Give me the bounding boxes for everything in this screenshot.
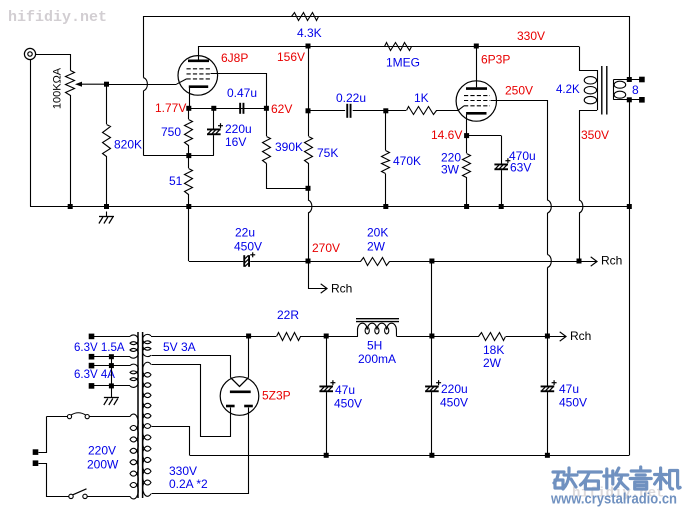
wire 220 bottom xyxy=(466,177,468,207)
svg-text:63V: 63V xyxy=(510,161,531,175)
junction heater gnd b xyxy=(109,363,114,368)
svg-text:5H: 5H xyxy=(367,339,382,353)
transformer PT 6.3V4A winding xyxy=(130,364,138,387)
svg-text:270V: 270V xyxy=(312,241,340,255)
svg-text:0.47u: 0.47u xyxy=(227,86,257,100)
tube 5Z3P plate left xyxy=(226,405,235,408)
tube 6J8P cathode xyxy=(189,85,208,88)
wire grid bend 6J8P xyxy=(177,79,187,84)
arrow Rch coupling xyxy=(308,288,327,290)
wire coupling row left xyxy=(308,110,345,112)
svg-text:www.crystalradio.cn: www.crystalradio.cn xyxy=(550,492,677,508)
arrow Rch screen xyxy=(547,336,566,338)
wire 75K line to 270V node xyxy=(308,213,310,261)
junction plate row / 6P3P plate xyxy=(474,44,479,49)
wire 470u top xyxy=(501,136,503,164)
capacitor 220u 16V electrolytic xyxy=(207,129,221,131)
wire 6P3P screen out xyxy=(491,101,548,201)
wire 22u left drop xyxy=(188,207,190,262)
wire hop over volume wiper xyxy=(144,78,148,91)
wire mains top xyxy=(47,416,68,418)
wire 220u-b bottom lead xyxy=(431,392,433,455)
wire plate-left lead xyxy=(152,365,231,437)
wire OT primary drop 350V upper xyxy=(579,110,581,200)
junction heater gnd a xyxy=(109,354,114,359)
tube 6P3P cathode lead xyxy=(466,115,468,136)
svg-text:Rch: Rch xyxy=(570,329,591,343)
wire 47u-a top lead xyxy=(326,336,328,386)
svg-text:6.3V 4A: 6.3V 4A xyxy=(74,369,115,381)
svg-text:2W: 2W xyxy=(483,356,502,370)
wire plate row xyxy=(198,46,579,48)
transformer PT HV winding upper xyxy=(143,362,151,428)
junction 470u at bus xyxy=(499,204,504,209)
wire 6.3V1.5A top row xyxy=(92,336,131,338)
wire 22u to 270V node xyxy=(250,261,308,263)
junction 350V at 270V row xyxy=(577,259,582,264)
transformer PT 220V winding xyxy=(130,414,138,499)
wire OT secondary top stub xyxy=(614,79,642,81)
terminal heater d xyxy=(89,383,95,389)
tube 6P3P plate lead xyxy=(476,46,478,87)
wire mains left top xyxy=(39,417,47,453)
svg-text:350V: 350V xyxy=(581,128,609,142)
watermark kuangshi shouyinji xyxy=(553,467,680,489)
wire secondary bottom drop xyxy=(629,100,631,456)
inductor 5H 200mA choke xyxy=(358,323,397,336)
wire grid bend 6P3P xyxy=(458,106,465,111)
svg-text:5V 3A: 5V 3A xyxy=(163,340,196,354)
wire hop 75K line over ground bus xyxy=(308,200,312,213)
wire jack ground drop xyxy=(30,60,32,207)
watermark hifidiy.net bottom xyxy=(572,486,664,502)
wire 1K right xyxy=(436,110,458,112)
svg-text:820K: 820K xyxy=(114,138,142,152)
transformer PT core xyxy=(137,332,139,498)
fuse F1 xyxy=(67,415,71,419)
wire bottom return bus xyxy=(190,455,630,457)
svg-text:3W: 3W xyxy=(441,163,460,177)
resistor 750 cathode xyxy=(185,120,193,146)
label 100KOhmA xyxy=(52,67,64,109)
svg-text:4.3K: 4.3K xyxy=(297,26,322,40)
junction secondary bottom xyxy=(627,97,632,102)
svg-text:450V: 450V xyxy=(234,240,262,254)
wire mains left bottom xyxy=(39,464,69,497)
wire 820K bottom xyxy=(106,156,108,207)
svg-text:220V: 220V xyxy=(88,444,116,458)
terminal heater c xyxy=(89,363,95,369)
junction 250V screen node xyxy=(545,334,550,339)
wire pot bottom xyxy=(70,95,72,207)
wire jack to pot top xyxy=(36,55,71,71)
wire 220 top xyxy=(466,136,468,153)
wire heater ground drop xyxy=(111,357,113,393)
junction 470K at bus xyxy=(383,204,388,209)
tube 6P3P cathode xyxy=(466,112,486,115)
svg-text:450V: 450V xyxy=(334,397,362,411)
junction 470K top xyxy=(383,108,388,113)
tube 5Z3P filament lead left xyxy=(230,355,232,377)
wire OT primary bottom stub xyxy=(579,110,597,112)
svg-text:100KΩA: 100KΩA xyxy=(52,67,64,109)
svg-text:200W: 200W xyxy=(87,458,119,472)
wire feedback right drop to secondary xyxy=(629,16,631,80)
svg-text:62V: 62V xyxy=(271,102,292,116)
svg-text:75K: 75K xyxy=(317,146,338,160)
junction 47u-b at bus2 xyxy=(545,453,550,458)
wire 18K right xyxy=(506,336,548,338)
resistor 22R surge xyxy=(277,333,301,341)
wire choke right xyxy=(397,336,432,338)
svg-text:18K: 18K xyxy=(483,343,504,357)
wire feedback left drop upper xyxy=(143,16,145,78)
wire cathode node row xyxy=(189,108,267,110)
terminal mains L xyxy=(33,449,39,455)
wire screen line lower xyxy=(547,268,549,337)
resistor 4.3K feedback xyxy=(292,13,319,21)
svg-text:0.22u: 0.22u xyxy=(336,91,366,105)
capacitor 470u 63V electrolytic xyxy=(494,164,508,166)
potentiometer 100K-A volume xyxy=(66,71,75,96)
junction secondary drop at bus xyxy=(627,204,632,209)
wire 750 bottom xyxy=(188,145,190,156)
svg-text:16V: 16V xyxy=(225,135,246,149)
junction 51 at bus xyxy=(186,204,191,209)
junction cathode 6P3P xyxy=(464,133,469,138)
wire HV center tap xyxy=(152,427,190,456)
wire 1K left xyxy=(386,110,406,112)
tube 6P3P grid dashes xyxy=(464,96,490,106)
junction plate row / 75K drop xyxy=(306,44,311,49)
tube 5Z3P anode bar xyxy=(230,390,251,393)
wire wiper to grid xyxy=(107,84,177,86)
tube 6J8P grid dashes xyxy=(187,69,211,79)
capacitor 47u 450V b electrolytic xyxy=(541,386,555,388)
wire 750 top xyxy=(188,108,190,119)
wire 220u-b top lead xyxy=(431,336,433,386)
wire 470K top xyxy=(385,111,387,151)
junction 270V node xyxy=(306,259,311,264)
resistor 20K 2W decoupling xyxy=(361,258,390,266)
wire mains top b xyxy=(89,416,130,418)
svg-text:220u: 220u xyxy=(225,122,252,136)
wire 18K left xyxy=(432,336,479,338)
svg-text:156V: 156V xyxy=(277,50,305,64)
tube 6J8P plate lead xyxy=(198,46,200,60)
wire hop OT drop over ground bus xyxy=(579,200,583,213)
choke core lines xyxy=(356,318,399,320)
tube 5Z3P filament xyxy=(231,378,249,387)
wire 6.3V4A bottom row xyxy=(92,385,131,387)
wire plate-right lead xyxy=(152,408,249,494)
tube 5Z3P filament lead right xyxy=(248,336,250,378)
junction rectifier filament B+ xyxy=(246,334,251,339)
wire OT drop to 270V row xyxy=(579,213,581,261)
ground symbol main bus xyxy=(106,212,108,217)
svg-text:1MEG: 1MEG xyxy=(386,56,420,70)
wire 470K bottom xyxy=(385,174,387,207)
svg-text:250V: 250V xyxy=(505,84,533,98)
resistor 18K 2W screen feed xyxy=(479,333,506,341)
svg-text:470K: 470K xyxy=(393,154,421,168)
terminal speaker - xyxy=(639,97,645,103)
tube 5Z3P envelope xyxy=(220,377,259,416)
junction 220 at bus xyxy=(464,204,469,209)
wire coupling row mid xyxy=(353,110,386,112)
svg-text:Rch: Rch xyxy=(601,254,622,268)
wire mains bottom xyxy=(87,496,130,498)
wire cathode row 6P3P xyxy=(467,135,502,137)
wire hop screen line over 270V row xyxy=(547,255,551,268)
resistor 51 feedback leg xyxy=(185,169,193,195)
junction 20K right node xyxy=(429,259,434,264)
wire feedback top rail xyxy=(144,16,630,18)
junction 220u-b top xyxy=(429,334,434,339)
terminal speaker + xyxy=(639,77,645,83)
wire OT primary top stub xyxy=(579,70,597,72)
wire OT secondary bottom stub xyxy=(614,99,642,101)
wire 47u-b top lead xyxy=(547,336,549,386)
tube 6P3P envelope xyxy=(456,81,496,121)
wire 75K top xyxy=(308,111,310,136)
node input jack J1 xyxy=(24,48,35,59)
svg-text:1K: 1K xyxy=(414,91,429,105)
svg-text:hifidiy.net: hifidiy.net xyxy=(8,9,107,26)
junction 390K/75K node xyxy=(306,186,311,191)
capacitor 0.22u plates xyxy=(346,104,348,118)
capacitor 47u 450V a electrolytic xyxy=(319,386,333,388)
wire plate row corner to OT primary xyxy=(579,47,581,71)
wire hop screen line over ground bus xyxy=(547,200,551,213)
wire 22R right xyxy=(300,336,326,338)
svg-text:8: 8 xyxy=(632,83,639,97)
tube 6J8P plate xyxy=(188,59,209,62)
transformer PT 6.3V1.5A winding xyxy=(130,335,138,358)
junction heater gnd c xyxy=(109,383,114,388)
resistor 820K grid leak xyxy=(103,125,111,157)
junction 47u-a top xyxy=(324,334,329,339)
wire 6J8P screen to 62V node xyxy=(211,74,267,109)
junction cathode feedback node xyxy=(186,153,191,158)
svg-text:22u: 22u xyxy=(235,226,255,240)
terminal mains N xyxy=(33,460,39,466)
resistor 1MEG grid leak 6P3P xyxy=(385,43,412,51)
pot wiper arrow xyxy=(81,83,107,85)
svg-text:750: 750 xyxy=(161,125,181,139)
transformer PT 5V winding xyxy=(143,334,151,356)
junction 62V node xyxy=(264,106,269,111)
wire Rch stub down xyxy=(309,262,311,289)
svg-text:6.3V 1.5A: 6.3V 1.5A xyxy=(74,342,125,354)
wire choke left xyxy=(326,336,358,338)
ground symbol heater xyxy=(111,393,113,398)
wire feedback left drop lower xyxy=(143,91,145,156)
tube 6J8P cathode lead xyxy=(189,88,191,108)
wire 22R left xyxy=(249,336,276,338)
resistor 75K plate load xyxy=(305,137,313,164)
wire 20K right xyxy=(389,261,432,263)
svg-text:1.77V: 1.77V xyxy=(155,101,186,115)
tube 6P3P plate xyxy=(466,87,487,90)
junction 820K at bus xyxy=(104,204,109,209)
wire 20K left xyxy=(308,261,361,263)
tube 5Z3P plate right xyxy=(244,405,253,408)
wire 51 bottom xyxy=(188,194,190,207)
svg-text:330V: 330V xyxy=(169,464,197,478)
svg-text:390K: 390K xyxy=(275,140,303,154)
wire 820K top xyxy=(106,84,108,124)
svg-text:14.6V: 14.6V xyxy=(431,128,462,142)
resistor 390K screen dropper xyxy=(263,137,271,164)
wire 47u-a bottom lead xyxy=(326,392,328,455)
wire ground bus left xyxy=(30,206,629,208)
wire 270V row left xyxy=(189,261,244,263)
svg-text:2W: 2W xyxy=(367,240,386,254)
junction secondary top xyxy=(627,77,632,82)
wire 220u top xyxy=(213,108,215,128)
resistor 1K grid stopper xyxy=(407,107,437,115)
svg-text:47u: 47u xyxy=(559,382,579,396)
wire screen line mid xyxy=(547,213,549,255)
wire B+ row from 5V winding xyxy=(151,336,249,338)
svg-text:6J8P: 6J8P xyxy=(221,51,248,65)
resistor 220 3W cathode xyxy=(463,154,471,178)
wire 470u bottom xyxy=(501,170,503,206)
wire 390K bottom xyxy=(267,164,309,189)
wire 51 top xyxy=(188,156,190,168)
capacitor 0.47u plates xyxy=(239,103,241,114)
wire 390K top xyxy=(266,108,268,136)
svg-text:22R: 22R xyxy=(277,308,299,322)
junction coupling row left xyxy=(306,108,311,113)
svg-text:4.2K: 4.2K xyxy=(556,84,580,96)
transformer OT core xyxy=(601,66,603,115)
wire 270V row right xyxy=(432,261,579,263)
junction pot bottom at bus xyxy=(68,204,73,209)
svg-text:20K: 20K xyxy=(367,226,388,240)
switch S1 xyxy=(69,494,73,498)
svg-text:330V: 330V xyxy=(517,29,545,43)
tube 6J8P envelope xyxy=(178,56,218,96)
svg-text:0.2A *2: 0.2A *2 xyxy=(169,477,208,491)
wire 350V node drop xyxy=(431,261,433,336)
wire 5V bottom row xyxy=(152,355,231,357)
wire 6.3V1.5A bottom row xyxy=(92,356,131,358)
junction 47u-a at bus2 xyxy=(324,453,329,458)
svg-text:6P3P: 6P3P xyxy=(481,53,510,67)
terminal heater a xyxy=(89,334,95,340)
svg-text:450V: 450V xyxy=(440,396,468,410)
svg-text:47u: 47u xyxy=(335,383,355,397)
transformer OT secondary winding xyxy=(613,80,615,100)
wire 75K bottom xyxy=(308,163,310,200)
svg-text:220u: 220u xyxy=(441,382,468,396)
resistor 470K grid leak xyxy=(382,151,390,174)
transformer OT primary winding xyxy=(597,70,599,110)
transformer PT HV winding lower xyxy=(143,424,151,497)
junction 220u-b at bus2 xyxy=(429,453,434,458)
wire 220u bottom xyxy=(213,135,215,156)
arrow Rch 350V xyxy=(579,261,597,263)
junction cathode 6J8P xyxy=(186,106,191,111)
terminal heater b xyxy=(89,354,95,360)
svg-text:51: 51 xyxy=(169,174,183,188)
capacitor 22u 450V electrolytic xyxy=(243,255,245,267)
wire 47u-b bottom lead xyxy=(547,392,549,455)
wire feedback to cathode node xyxy=(144,155,214,157)
wire 6.3V4A top row xyxy=(92,365,131,367)
capacitor 220u 450V electrolytic xyxy=(425,386,439,388)
junction 220u top xyxy=(211,106,216,111)
svg-text:5Z3P: 5Z3P xyxy=(262,389,291,403)
svg-text:200mA: 200mA xyxy=(358,352,396,366)
wire plate drop upper xyxy=(308,46,310,111)
junction pot wiper / 820K xyxy=(104,82,109,87)
svg-text:Rch: Rch xyxy=(331,282,352,296)
svg-text:450V: 450V xyxy=(559,396,587,410)
